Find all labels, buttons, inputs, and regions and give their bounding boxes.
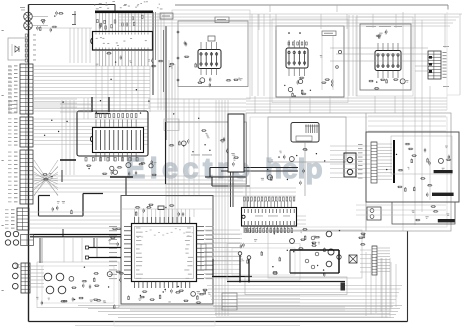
wire crossover mesh CN103 [34,160,58,196]
component cluster R2 [425,215,428,218]
IC3 top pin leads [243,201,245,208]
resistor row below IC2 frame [85,158,87,162]
op-amp U201 array [198,50,221,69]
relay box with X [349,255,357,263]
component cluster below IC2 [118,167,121,169]
connector CN201 right [428,51,441,79]
wire trunk lines center [165,58,167,234]
block section D outer [246,113,451,231]
op-amp U IC1 body [93,32,153,51]
component cluster left of QFP box [108,239,110,242]
terminal circle right of B [338,50,341,53]
block rounded frame around IC2 [77,111,148,156]
label strip box C top [366,25,376,28]
wire thick vertical-out loop [290,249,339,251]
wire fan bottom [78,305,402,307]
transistor array U2 body [93,128,144,153]
component cluster center [205,132,207,135]
wire thick segment A [89,247,121,249]
wire harness CN105 [30,265,44,267]
wire vertical drops into section D [254,96,256,113]
label bar R1 dark [434,170,453,173]
node junction dots box B [288,32,290,34]
wire verticals left of IC2 frame [61,100,63,175]
wire trunk top horizontals [118,13,462,15]
wire horizontals bottom mid [207,285,402,287]
component cluster R1 upper [427,159,429,162]
component cluster staircase [62,200,65,203]
connector J2 audio jacks [5,231,10,236]
wire top border left [29,4,116,6]
block section D inner [250,117,447,227]
transformer T1 flyback [291,123,319,143]
wire horizontals upper mid [34,98,77,100]
wire thick QFP out [212,276,252,278]
wire jack bus horizontal [36,27,92,29]
wires IC3 to QFP [213,233,242,235]
connector CN103 [20,150,33,204]
component cluster box C lower [375,88,378,90]
wire verticals below box A [183,99,185,195]
wire verticals between B and C [348,15,350,96]
connector J3 jack column [13,263,19,269]
wire top border right [175,4,448,6]
wire trunk top verticals [258,14,260,30]
block box R1 regulator [366,132,459,202]
resistor cluster above U401 [384,31,386,34]
component cluster H-drive [304,147,306,150]
dark bar heatsink [393,140,395,183]
wire horizontals right section D [368,115,446,117]
QFP bottom pins [134,282,136,289]
IC3 jungle body [242,208,297,227]
label bar R2 dark [438,219,455,222]
wire harness CN3 left [330,145,371,147]
diode D1 box [8,38,26,60]
wire dark vertical x166 [165,122,167,184]
label box VOL [160,13,173,19]
wire right vertical border [407,231,409,322]
IC2 bottom pin leads [95,153,97,162]
connector yoke 2-pin [344,153,356,177]
wire top-left vertical drops [69,28,71,63]
wire horizontals below B C [246,97,447,99]
block box A outer [172,10,250,99]
wire verticals jack bus down [63,238,65,262]
wire harness CN201 [330,47,428,49]
wires above IC2 [60,103,92,105]
component cluster above loop [300,230,302,233]
transistor Q cluster vertical out [290,239,295,244]
IC1 top pin leads [95,13,97,31]
wire bold entries into IC2 frame [91,97,93,112]
block box around QFP [121,196,213,305]
transistor Q audio quad [44,273,52,281]
wires section D lower [250,215,306,217]
label box IC201 [215,17,229,23]
wire harness CN3 right [377,143,392,145]
wire harness CN101 [33,65,150,67]
block section D divider [365,113,367,231]
wire bus bar above IC1 [95,11,153,14]
IC3 bottom pin leads [243,226,245,233]
wire thick drops from bus [39,238,41,263]
wire dark elbow left [110,176,133,178]
op-amp U301 array [286,48,308,68]
label column left of CN3 [358,143,363,146]
connector CN102 [20,117,33,147]
QFP right pins [197,226,205,228]
wire horizontals mid [34,175,243,177]
component row RUN box [192,151,193,152]
resistor cluster near J1 [40,27,42,30]
block box R2 vertical amp [392,202,455,224]
wire harness right of QFP [204,229,240,231]
label RUN SECTION [191,154,200,157]
component above U201 [208,36,215,41]
component cluster R1 lower [414,188,416,191]
wire bottom connector box right [222,293,237,310]
terminal dots box A edge [177,31,179,33]
wire bold staircase bottom-left [39,195,51,197]
component cluster mid bottom [247,260,249,263]
label box IC301 [322,31,336,36]
labels left of IC1 [72,13,76,16]
connector J1 AV jack [24,12,33,21]
resistor row on IC1 pins [122,23,124,26]
block vertical out frame [268,230,362,278]
wires above IC3 [166,187,296,189]
wire thick segment left of IC2 [60,159,76,161]
wire IC1 to IC2 verticals [95,66,97,112]
wire dark vertical right of IC1 [152,12,154,95]
wire right side verticals [402,12,404,231]
wire verticals between A and B [251,14,253,96]
component cluster below strips [50,175,52,178]
wire mid right horizontals [356,204,446,206]
component cluster below QFP box [184,300,187,302]
block box around FBT [268,117,346,162]
resistor cluster box A lower [208,79,210,81]
transistor cluster audio [117,271,120,273]
wire fan verticals bottom right [365,252,367,316]
label row above IC1 bus [123,4,126,7]
wire harness CN102 [33,118,148,120]
wire thick segment B [89,257,121,259]
component cluster box B right [331,84,333,86]
IC3 bottom resistor row [245,229,247,233]
connector box right of J2 [21,235,34,246]
wire left vertical bus [28,5,30,322]
block box B outer [272,19,348,103]
wire double bus line [30,234,121,236]
resistor row above U301 [288,42,290,45]
page edge tick marks [2,29,4,32]
wire harness CN4 [377,247,390,249]
wire verticals center right [215,100,217,316]
microcontroller U10 QFP body [132,224,197,282]
block box C outline [360,24,411,90]
connector CN104 [17,208,29,230]
connector CN101 [20,64,33,114]
block box RUN SECTION [166,122,247,184]
wire verticals inside B [321,36,323,90]
block box C outer [356,17,413,96]
wire bottom border [29,321,408,323]
small box right of IC2 frame [164,119,179,130]
capacitor cluster box A left [184,43,186,45]
connector pin strip CN3 [371,142,377,183]
component blobs left of box A [159,60,162,62]
component row above QFP [177,213,179,215]
wire bold traces bottom mid [227,281,345,283]
block nested boxes bottom mid [227,244,300,280]
crystal X1 [158,206,164,210]
QFP top pin wires up [134,209,136,217]
wire faint bottom rail [75,325,300,327]
QFP left pins [124,226,132,228]
label box left edge [9,101,17,113]
resistor row above IC2 [95,114,97,118]
wire dark staircase traces [209,168,211,178]
label bar R1 lower dark [432,193,454,196]
wires right of IC1 [157,13,159,110]
connector small strip left [201,244,206,270]
connector pin strip CN4 [372,246,377,275]
op-amp U401 array [375,51,401,71]
connector yoke 2-pin lower [367,207,381,220]
block box A outline [178,21,248,87]
node junction dots mesh [96,112,97,113]
IC3 top resistor row [244,197,246,201]
block box bottom mid lower [245,277,347,295]
component row bottom strip [114,306,116,309]
component dark box end of bold trace [341,283,346,291]
QFP top pins [134,217,136,224]
wire harness CN104 to QFP [30,211,121,213]
connector CN105 [21,263,30,293]
capacitor column left bus [25,34,27,37]
wire verticals right bundle down [381,258,383,318]
IC2 top pin leads [95,120,97,128]
component row below QFP [197,296,199,299]
wire dark trunk x166 upper [165,26,167,140]
block audio amp frame [37,262,119,308]
wires below drive box [228,175,246,177]
IC1 bottom pin leads [95,50,97,66]
block box vertical drive [228,114,244,172]
label column right of CN201 [443,45,449,48]
component cluster box B lower [301,90,303,93]
label cluster below IC1 [152,65,155,67]
block box B outline [276,26,344,97]
component cluster right of loop [363,235,365,238]
